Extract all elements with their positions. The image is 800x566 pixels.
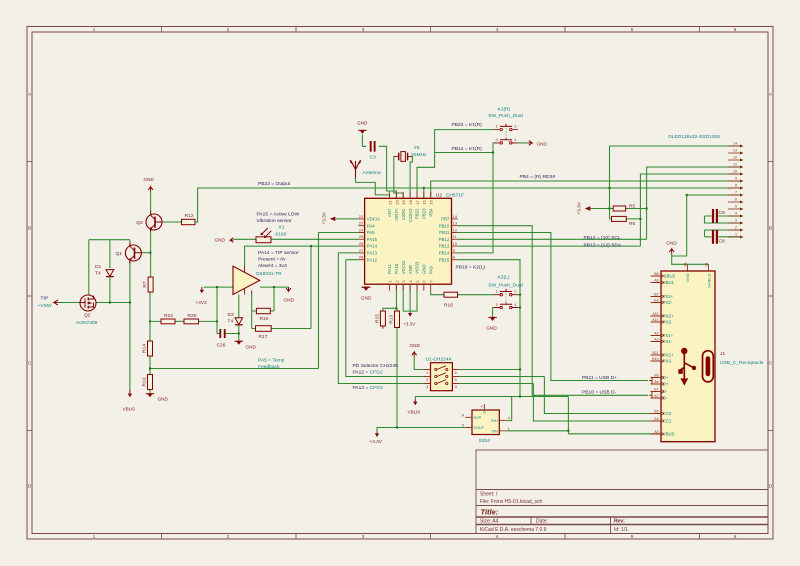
svg-text:2: 2 — [227, 534, 230, 539]
power flag +3.3V at S204 VOUT — [375, 433, 379, 438]
svg-text:B: B — [769, 226, 772, 231]
svg-text:PA12 = CFG2: PA12 = CFG2 — [353, 369, 384, 375]
svg-text:3: 3 — [362, 27, 365, 32]
resistor R6 — [612, 216, 627, 221]
resistor R12 — [182, 219, 196, 224]
resistor R15 — [380, 311, 385, 329]
diode D1 — [106, 270, 114, 277]
svg-text:3: 3 — [735, 218, 737, 222]
svg-text:19: 19 — [401, 199, 406, 204]
svg-text:PB14 = K1(R): PB14 = K1(R) — [452, 146, 483, 152]
svg-text:D3: D3 — [228, 312, 235, 318]
resistor R5 — [613, 206, 625, 211]
svg-text:B7: B7 — [654, 388, 658, 392]
wire K2 pin3 to GND — [493, 308, 494, 318]
svg-text:6: 6 — [734, 534, 737, 539]
resistor R10 — [148, 375, 153, 390]
svg-text:PA15 = Active LOW: PA15 = Active LOW — [257, 211, 300, 217]
switch K2a contacts row y=294.7 — [494, 289, 518, 296]
svg-text:B: B — [28, 226, 31, 231]
resistor R20 — [184, 319, 199, 324]
svg-text:6: 6 — [734, 27, 737, 32]
gnd symbol near op-amp (U2 left) — [362, 287, 371, 291]
svg-text:ANT: ANT — [387, 208, 392, 217]
svg-text:VINTA: VINTA — [394, 208, 399, 220]
svg-text:RX2+: RX2+ — [663, 314, 674, 319]
gnd symbol below R10 — [146, 394, 154, 398]
svg-text:R16: R16 — [444, 302, 453, 308]
svg-text:1: 1 — [93, 27, 96, 32]
wire net PB4 = (R) RES# — [431, 181, 740, 198]
wire C26 to D3 to GND — [225, 295, 239, 342]
wire op-amp V+ to PA14 pin — [245, 246, 359, 266]
svg-text:C26: C26 — [217, 342, 226, 348]
svg-text:1: 1 — [735, 232, 737, 236]
svg-text:U1-CH224K: U1-CH224K — [426, 357, 453, 363]
svg-text:GND: GND — [685, 273, 690, 282]
svg-text:1: 1 — [496, 290, 498, 294]
wire net SCL — [458, 167, 740, 239]
svg-text:U2: U2 — [436, 193, 443, 199]
svg-text:14: 14 — [453, 214, 458, 219]
svg-text:CH571F: CH571F — [446, 193, 464, 199]
svg-text:PB11: PB11 — [439, 230, 450, 235]
svg-text:S204: S204 — [479, 438, 491, 444]
svg-text:KiCad E.D.A. eeschema 7.0.9: KiCad E.D.A. eeschema 7.0.9 — [480, 527, 547, 533]
svg-text:1: 1 — [426, 371, 428, 375]
svg-text:9: 9 — [735, 176, 737, 180]
svg-text:R22: R22 — [164, 313, 173, 319]
svg-text:A1: A1 — [683, 262, 687, 266]
gnd flag at op-amp output — [286, 287, 291, 291]
svg-text:Vibration sensor: Vibration sensor — [257, 218, 293, 224]
svg-text:XNR: XNR — [408, 265, 413, 274]
transistor Q3 — [146, 211, 162, 231]
svg-text:PB10: PB10 — [439, 223, 450, 228]
svg-text:GND: GND — [361, 295, 372, 300]
wire net PA12 = CFG2 — [346, 260, 424, 377]
svg-text:PB15: PB15 — [439, 257, 450, 262]
svg-text:B3: B3 — [654, 299, 658, 303]
wire S204 INH — [506, 397, 511, 421]
svg-text:Id: 1/1: Id: 1/1 — [614, 527, 628, 533]
power flag +3.3V below U2 — [408, 313, 412, 317]
svg-text:GND: GND — [357, 121, 368, 126]
wire OLED pin7 to USB shield GND — [672, 195, 740, 264]
svg-text:26: 26 — [359, 241, 364, 246]
components — [54, 130, 413, 397]
svg-text:15: 15 — [429, 199, 434, 204]
svg-text:SHIELD: SHIELD — [706, 273, 711, 288]
title block — [476, 490, 768, 534]
svg-text:VBUS: VBUS — [408, 409, 421, 414]
svg-text:6: 6 — [735, 197, 737, 201]
usb trident logo — [678, 348, 696, 386]
wire C8 to OLED pins 2,1 — [705, 230, 740, 237]
svg-text:GND: GND — [284, 298, 295, 303]
gnd flag at K1 — [529, 141, 533, 146]
svg-text:Q1: Q1 — [116, 251, 123, 257]
svg-text:B11: B11 — [652, 351, 658, 355]
svg-text:Date:: Date: — [536, 519, 548, 525]
title block text — [480, 492, 628, 534]
svg-text:4: 4 — [514, 303, 516, 307]
svg-text:X32KO: X32KO — [408, 208, 413, 223]
svg-text:24: 24 — [359, 227, 364, 232]
gnd flag above U1 — [412, 352, 417, 356]
wire VBUS row — [415, 397, 568, 434]
svg-text:GND: GND — [666, 240, 677, 245]
svg-text:4: 4 — [496, 27, 499, 32]
svg-text:GND: GND — [410, 343, 421, 348]
svg-text:13: 13 — [453, 221, 458, 226]
svg-text:+3V3: +3V3 — [196, 300, 207, 305]
svg-text:PB14: PB14 — [439, 251, 450, 256]
svg-text:SW_Push_Dual: SW_Push_Dual — [488, 113, 523, 119]
svg-text:+3.3V: +3.3V — [322, 211, 327, 224]
transistor Q2 MOSFET — [80, 295, 96, 311]
wire Y5 crystal leads to X32KI X32KO — [394, 156, 413, 198]
svg-text:A6: A6 — [654, 380, 658, 384]
svg-text:4: 4 — [455, 385, 457, 389]
svg-text:GND: GND — [144, 177, 155, 182]
gnd symbol below D3 — [235, 341, 243, 345]
svg-text:5V: 5V — [483, 408, 487, 413]
wire net PB22 = K1(R) — [417, 130, 494, 199]
svg-text:PA12: PA12 — [367, 257, 378, 262]
svg-text:GND: GND — [486, 326, 497, 331]
svg-text:5: 5 — [631, 534, 634, 539]
svg-text:Rev:: Rev: — [614, 519, 625, 525]
svg-text:B8: B8 — [654, 272, 658, 276]
wire net PB14 = K1(R) — [435, 143, 494, 253]
wire op-amp output and R19 right — [260, 287, 289, 311]
gnd flag above Q3 — [148, 187, 153, 191]
svg-text:PB22: PB22 — [415, 208, 420, 219]
svg-text:16: 16 — [422, 199, 427, 204]
resistor R19 — [256, 308, 270, 313]
resistor R7 — [148, 277, 153, 292]
ic U1-CH224K PD selector — [424, 363, 460, 391]
power flag VBUS below U1 — [413, 400, 417, 406]
wire Q1 base — [141, 252, 150, 254]
svg-text:Antenna: Antenna — [363, 170, 382, 176]
vibration sensor X1 — [256, 228, 271, 243]
wire net USB D- — [458, 226, 648, 396]
svg-text:R6: R6 — [629, 221, 636, 227]
svg-text:S1: S1 — [704, 262, 708, 266]
wire X1 vibration sensor net — [234, 238, 359, 240]
crystal Y5 — [394, 152, 413, 162]
resistor R17 — [256, 326, 272, 332]
capacitor C9 — [713, 209, 717, 223]
svg-text:PB23: PB23 — [422, 208, 427, 219]
wire net SDA — [458, 174, 740, 246]
wire S204 VOUT to +3.3V — [377, 428, 465, 433]
wire pin PA9 to R16 and K2 — [431, 291, 494, 295]
wire R19/R17 left vertical — [252, 295, 257, 329]
svg-text:2: 2 — [514, 125, 516, 129]
svg-text:VIN: VIN — [491, 429, 498, 433]
svg-text:5: 5 — [735, 204, 737, 208]
svg-text:10: 10 — [733, 169, 737, 173]
svg-text:PB13 = (12) SDA: PB13 = (12) SDA — [584, 242, 622, 248]
svg-text:GS8331-TR: GS8331-TR — [256, 271, 283, 277]
svg-text:R10: R10 — [142, 377, 148, 386]
svg-text:PA13: PA13 — [367, 251, 378, 256]
gnd symbol below K2 — [488, 317, 496, 321]
push button K2(L) SW_Push_Dual — [494, 289, 518, 309]
connector OLED128x32-SSD1306 pins — [728, 146, 740, 237]
title block comment box — [476, 450, 768, 490]
svg-text:SBU1: SBU1 — [663, 280, 675, 285]
antenna — [350, 160, 361, 178]
usb-c receptacle oval — [703, 351, 714, 382]
resistor R22 — [161, 319, 175, 324]
svg-text:PA5: PA5 — [367, 230, 375, 235]
svg-text:4: 4 — [496, 534, 499, 539]
svg-text:+3.3V: +3.3V — [370, 439, 383, 444]
power flag VBUS left — [128, 390, 132, 398]
svg-text:BYP: BYP — [474, 416, 482, 420]
svg-text:PD Selector CH224K: PD Selector CH224K — [353, 363, 400, 369]
svg-text:2: 2 — [227, 27, 230, 32]
switch K1b contacts row y=142.9 — [494, 137, 518, 144]
svg-text:R15: R15 — [375, 314, 381, 323]
svg-text:R7: R7 — [142, 281, 148, 288]
wire K2 pin2/pin4 vertical to VBUS row — [518, 295, 520, 308]
svg-text:PB12: PB12 — [439, 237, 450, 242]
svg-text:20: 20 — [394, 199, 399, 204]
svg-text:10: 10 — [453, 241, 458, 246]
svg-text:3: 3 — [496, 303, 498, 307]
svg-text:32MHz: 32MHz — [411, 152, 427, 158]
wire net PB23/Output — [195, 188, 740, 222]
svg-text:TIP: TIP — [41, 296, 49, 302]
op-amp GS8331 — [233, 266, 260, 294]
svg-text:PB4: PB4 — [428, 208, 433, 217]
svg-text:1: 1 — [93, 534, 96, 539]
svg-text:X1: X1 — [279, 225, 285, 231]
resistor R16 — [444, 292, 458, 297]
svg-text:B6: B6 — [654, 374, 658, 378]
svg-text:23: 23 — [359, 221, 364, 226]
svg-text:+VSW: +VSW — [38, 303, 52, 309]
svg-text:21: 21 — [387, 199, 392, 204]
svg-text:AON7409: AON7409 — [76, 320, 98, 326]
svg-text:X160: X160 — [275, 231, 287, 237]
wire Q1 emitter to VBUS — [129, 240, 131, 390]
svg-text:GND: GND — [215, 238, 226, 243]
svg-text:18: 18 — [408, 199, 413, 204]
wire U1 pin6 to VBUS vertical — [459, 369, 520, 371]
svg-text:Q3: Q3 — [136, 220, 143, 226]
regulator S204 — [461, 404, 510, 435]
svg-text:A3: A3 — [654, 338, 658, 342]
svg-text:PA5 = Temp: PA5 = Temp — [258, 358, 285, 364]
svg-text:PB13: PB13 — [439, 244, 450, 249]
wire PA5 temp feedback net — [150, 233, 358, 369]
svg-text:PA14: PA14 — [367, 244, 378, 249]
power flag +3.3V at R5 — [585, 206, 591, 210]
capacitor C3 — [371, 141, 375, 152]
svg-text:7: 7 — [735, 190, 737, 194]
svg-text:GND: GND — [537, 141, 548, 146]
svg-text:11: 11 — [733, 162, 737, 166]
transistor Q1 — [125, 243, 141, 264]
svg-text:14: 14 — [733, 141, 737, 145]
svg-text:3: 3 — [426, 385, 428, 389]
wire +3.3V to R5 R6 pullups and OLED pin14 — [591, 146, 740, 219]
svg-text:A10: A10 — [652, 318, 658, 322]
svg-text:PA10: PA10 — [394, 263, 399, 274]
svg-text:3: 3 — [496, 138, 498, 142]
power flag +3V3 at op-amp input — [200, 287, 204, 293]
svg-text:Y5: Y5 — [414, 145, 420, 151]
svg-text:R5: R5 — [629, 204, 636, 210]
gnd symbol above C3 — [358, 130, 366, 134]
svg-text:VOUT: VOUT — [474, 426, 485, 430]
svg-text:5: 5 — [462, 424, 464, 428]
svg-text:R17: R17 — [259, 334, 268, 340]
wire R22 R20 row — [150, 320, 217, 322]
svg-text:PB7: PB7 — [441, 217, 450, 222]
resistor R14 — [148, 341, 153, 356]
svg-text:GND: GND — [246, 345, 257, 350]
resistor R13 — [395, 311, 400, 328]
svg-text:B10: B10 — [652, 357, 658, 361]
svg-text:T4: T4 — [95, 270, 101, 276]
svg-text:T4: T4 — [228, 319, 234, 325]
svg-text:4: 4 — [480, 405, 484, 407]
capacitor C8 — [713, 230, 717, 244]
wire net PB18 = K2(L) — [458, 260, 520, 397]
svg-text:SBU2: SBU2 — [664, 274, 676, 279]
svg-text:PB12 = (10) SCL: PB12 = (10) SCL — [584, 235, 621, 241]
gnd symbol below U2 — [362, 286, 370, 288]
svg-text:3: 3 — [362, 534, 365, 539]
ic U2 CH571F — [358, 192, 458, 291]
svg-text:PB22 = K1(R): PB22 = K1(R) — [452, 122, 483, 128]
wire Q3 collector to GND — [150, 191, 152, 215]
svg-text:R20: R20 — [188, 313, 197, 319]
svg-text:VBUS: VBUS — [123, 407, 136, 412]
svg-text:A5: A5 — [654, 417, 658, 421]
svg-text:Sheet: /: Sheet: / — [480, 492, 498, 498]
svg-text:PB11 = USB D+: PB11 = USB D+ — [582, 375, 617, 381]
svg-text:C8: C8 — [719, 239, 726, 245]
svg-text:VDCID: VDCID — [401, 261, 406, 274]
svg-text:22: 22 — [359, 214, 364, 219]
svg-text:27: 27 — [359, 248, 364, 253]
svg-text:X32KI: X32KI — [401, 209, 406, 221]
svg-text:A8: A8 — [654, 279, 658, 283]
svg-text:A7: A7 — [654, 394, 658, 398]
svg-text:RX1+: RX1+ — [663, 353, 674, 358]
svg-text:PA13 = CFG3: PA13 = CFG3 — [353, 385, 384, 391]
wire U2 pin22 +3.3V — [336, 218, 359, 220]
svg-text:R12: R12 — [185, 213, 194, 219]
svg-text:C9: C9 — [719, 210, 726, 216]
svg-text:R14: R14 — [142, 344, 148, 353]
svg-text:PA9: PA9 — [428, 266, 433, 274]
svg-text:2: 2 — [735, 225, 737, 229]
svg-text:PA14 = TIP sensor: PA14 = TIP sensor — [258, 250, 299, 256]
svg-text:K2(L): K2(L) — [498, 274, 510, 280]
wire U2 pins 3,4,5 +3.3V loop — [403, 284, 417, 312]
svg-text:K1(R): K1(R) — [498, 107, 511, 113]
wire rail Q1 collector / D1 / Q2 gate — [89, 240, 130, 303]
svg-text:PB23 = Output: PB23 = Output — [258, 181, 291, 187]
svg-text:17: 17 — [415, 199, 420, 204]
svg-text:A4: A4 — [654, 430, 658, 434]
connector J1 USB_C_Receptacle — [649, 262, 715, 442]
svg-text:PA15: PA15 — [367, 237, 378, 242]
push button K1(R) SW_Push_Dual — [494, 124, 518, 144]
svg-text:Size: A4: Size: A4 — [480, 519, 499, 525]
svg-text:VIO33: VIO33 — [415, 261, 420, 274]
svg-text:File: Fnirsi HS-01.kicad_sch: File: Fnirsi HS-01.kicad_sch — [480, 499, 542, 505]
svg-text:C3: C3 — [370, 155, 377, 161]
svg-text:B5: B5 — [654, 410, 658, 414]
switch K2b contacts row y=307.5 — [494, 302, 518, 309]
svg-text:R19: R19 — [260, 316, 269, 322]
svg-text:GND: GND — [158, 397, 169, 402]
wire antenna to ANT pin — [356, 178, 390, 198]
capacitor C26 — [220, 329, 224, 338]
net flag TIP arrow — [54, 300, 58, 305]
diode D3 — [235, 318, 243, 325]
svg-text:8: 8 — [735, 183, 737, 187]
svg-text:4: 4 — [735, 211, 737, 215]
svg-text:12: 12 — [453, 227, 458, 232]
svg-text:USB_C_Receptacle: USB_C_Receptacle — [720, 360, 764, 366]
wire net CC2 — [459, 377, 660, 414]
svg-text:6: 6 — [455, 371, 457, 375]
wire net USB D+ — [458, 233, 648, 381]
wire Q3 emitter / R7 / R14 / R10 vertical rail — [149, 230, 152, 394]
gnd flag at X1 — [230, 238, 233, 243]
wire C3 to GND and VINTA pin — [362, 135, 396, 199]
svg-text:13: 13 — [733, 148, 737, 152]
svg-text:25: 25 — [359, 234, 364, 239]
svg-text:PB10 = USB D-: PB10 = USB D- — [582, 390, 616, 396]
svg-text:D1: D1 — [95, 264, 102, 270]
svg-text:R13: R13 — [389, 315, 395, 324]
svg-text:Feedback: Feedback — [258, 364, 280, 370]
svg-text:Absent = 3v3: Absent = 3v3 — [258, 263, 287, 269]
power flag +3.3V at U2 pin22 — [330, 217, 336, 221]
svg-text:Title:: Title: — [481, 508, 499, 517]
svg-text:+3.3V: +3.3V — [577, 201, 582, 214]
svg-text:Q2: Q2 — [84, 313, 91, 319]
wire feedback node vertical to op-amp input and C26 — [204, 287, 234, 333]
svg-text:PB4 = (R) RES#: PB4 = (R) RES# — [520, 174, 556, 180]
net and value labels — [38, 107, 764, 444]
svg-text:5: 5 — [631, 27, 634, 32]
svg-text:28: 28 — [359, 255, 364, 260]
svg-text:SW_Push_Dual: SW_Push_Dual — [488, 283, 523, 289]
svg-text:PA4: PA4 — [367, 223, 375, 228]
wire K1 pin4 to GND flag — [518, 142, 529, 144]
svg-text:A11: A11 — [652, 312, 658, 316]
switch K1a contacts row y=129.6 — [494, 124, 518, 131]
svg-text:VDCIA: VDCIA — [367, 217, 380, 222]
svg-text:5: 5 — [455, 378, 457, 382]
wire R17 to PA14 net vertical — [271, 246, 311, 328]
svg-text:12: 12 — [733, 155, 737, 159]
wire TIP row through Q2 — [58, 302, 130, 304]
